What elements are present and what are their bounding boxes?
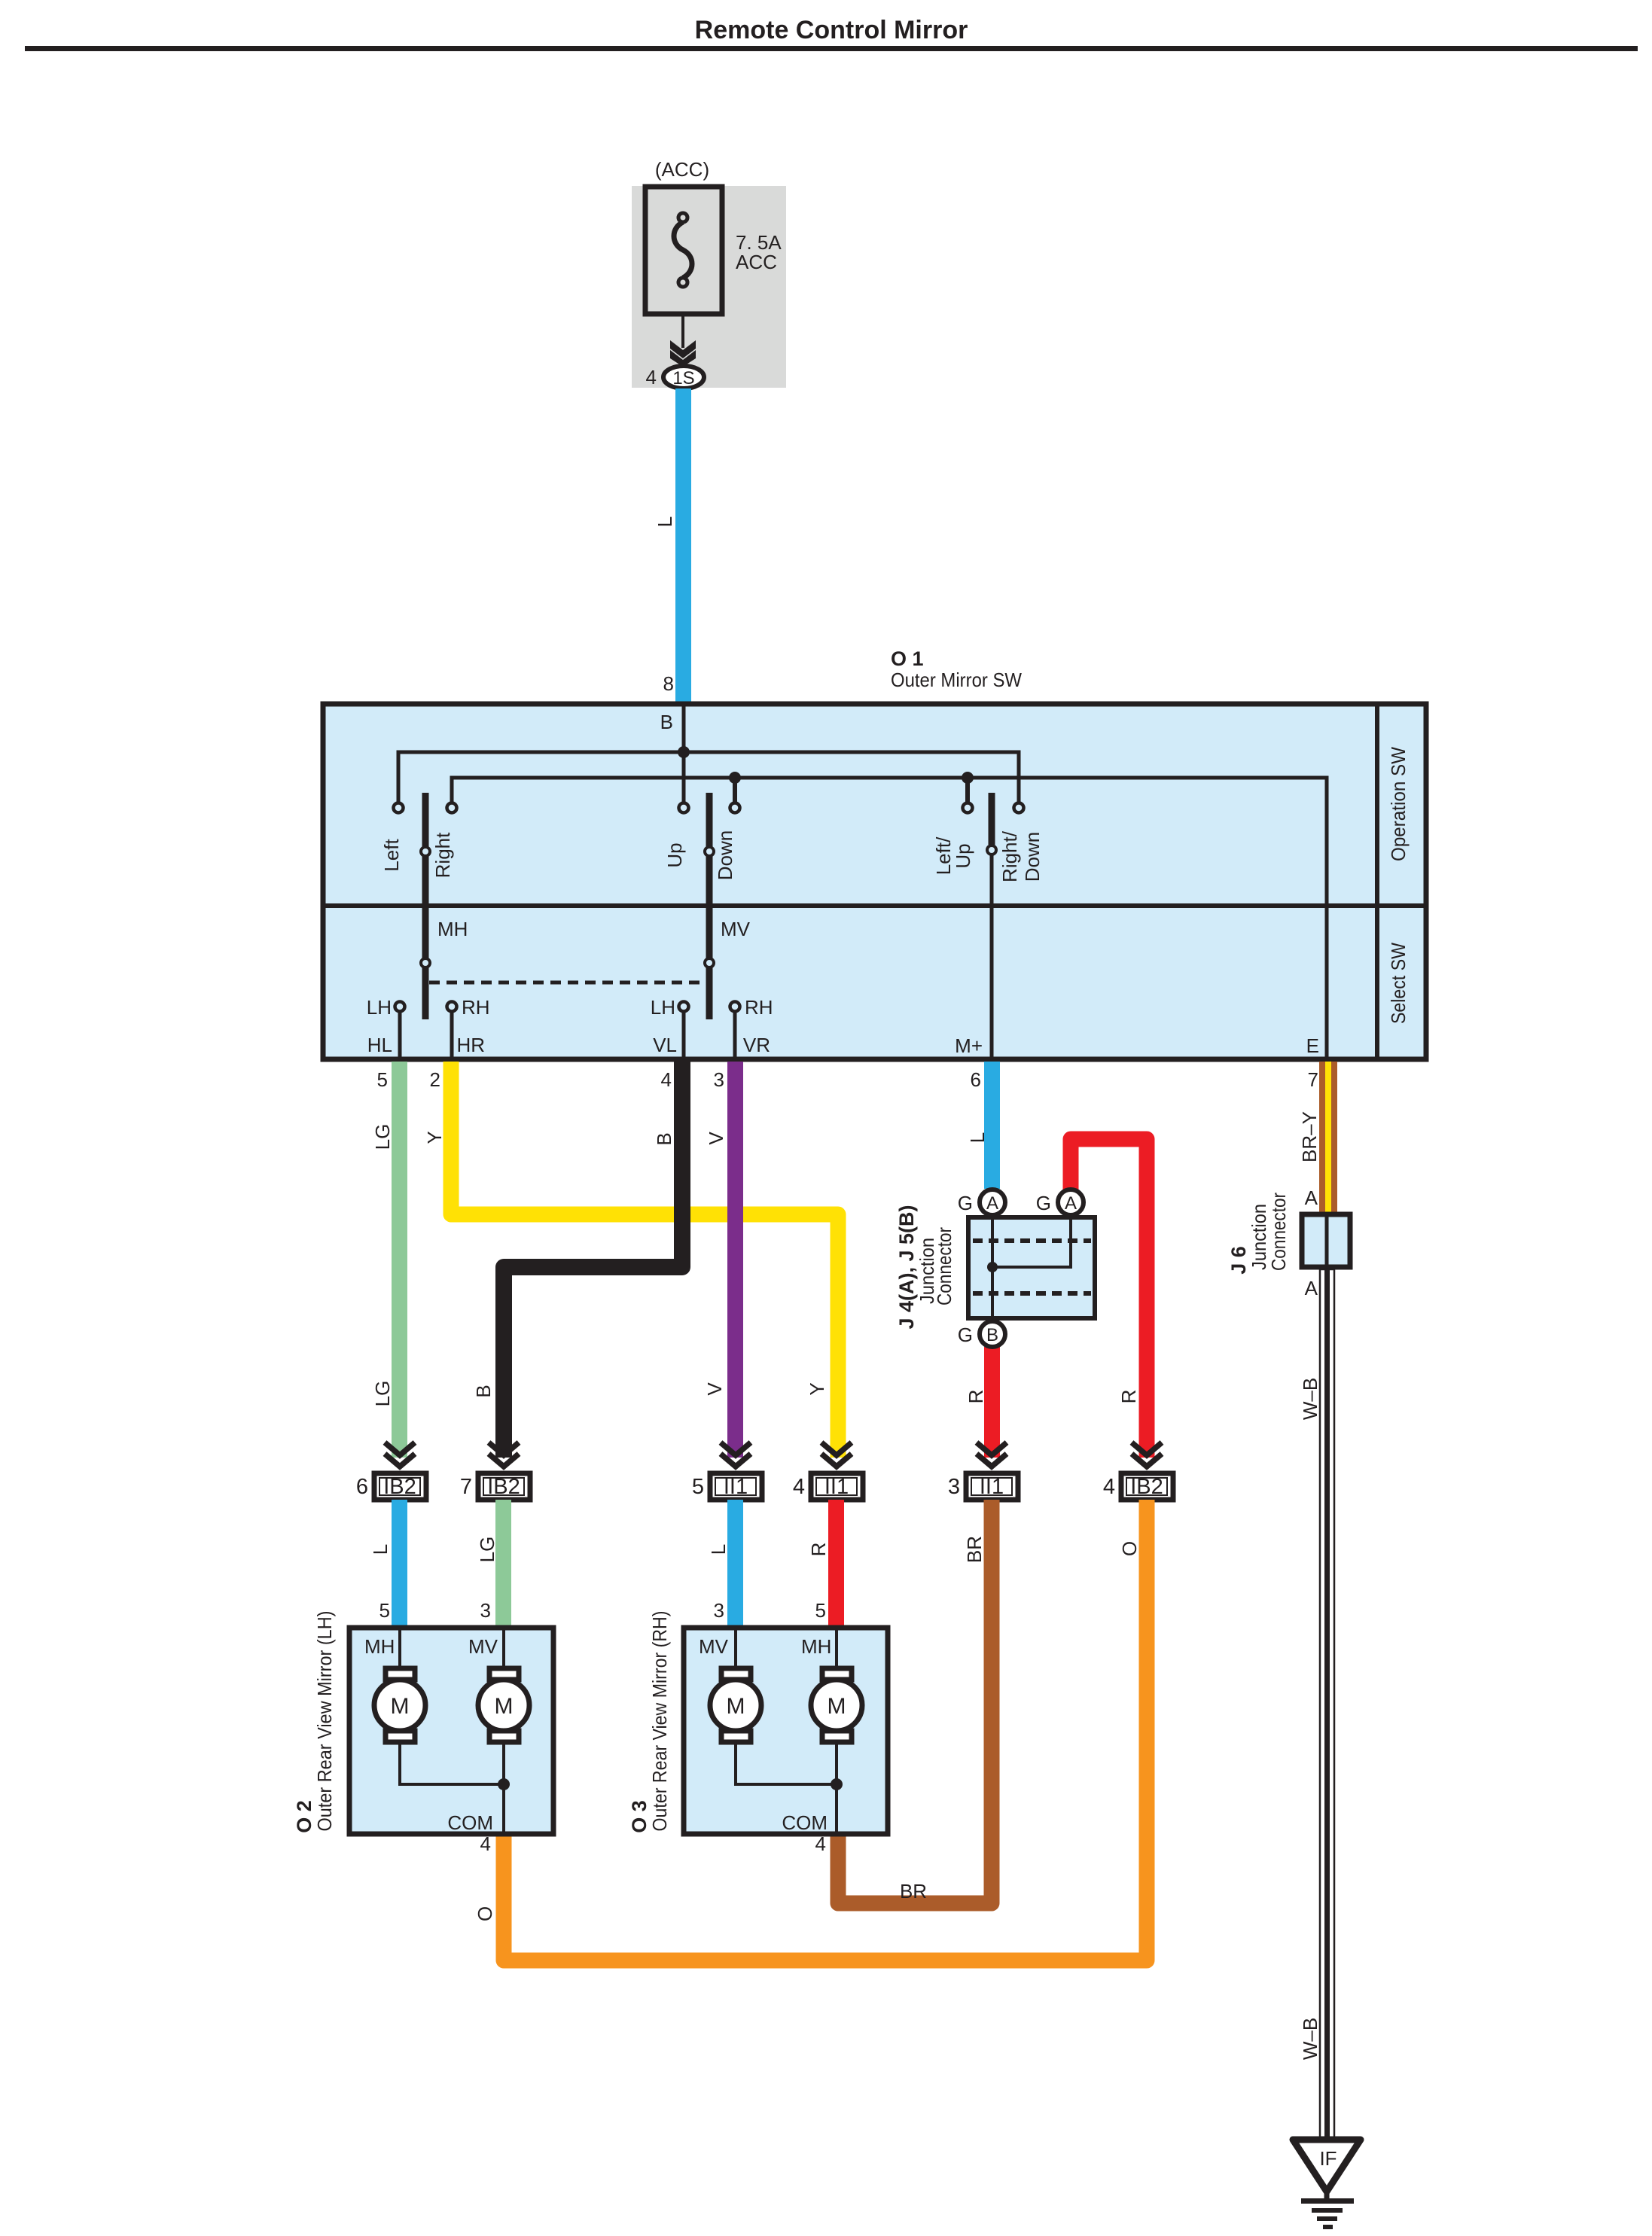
wire B from pin 4 to connector IB2	[504, 1062, 682, 1458]
wire label V upper	[705, 1132, 727, 1145]
svg-text:MH: MH	[437, 918, 468, 940]
stub Down contact	[733, 778, 737, 803]
contact RH (MV)	[730, 1002, 740, 1012]
svg-text:BR: BR	[900, 1880, 927, 1902]
contact Right	[447, 803, 457, 813]
svg-text:MV: MV	[468, 1635, 498, 1658]
svg-text:Right: Right	[431, 832, 454, 878]
svg-text:LG: LG	[371, 1124, 394, 1150]
contact LH (MH)	[395, 1002, 405, 1012]
svg-text:3: 3	[714, 1599, 724, 1622]
wire label R right	[1117, 1390, 1140, 1404]
svg-text:L: L	[966, 1132, 989, 1143]
pin B circle	[980, 1321, 1005, 1347]
svg-text:3: 3	[948, 1475, 960, 1499]
internal link A to B	[991, 1205, 994, 1331]
svg-text:O 1: O 1	[891, 647, 924, 670]
svg-text:BR–Y: BR–Y	[1298, 1111, 1321, 1162]
svg-text:O: O	[1118, 1541, 1141, 1556]
label Left/Up	[932, 836, 955, 875]
svg-text:Outer Mirror SW: Outer Mirror SW	[891, 669, 1022, 691]
wire label BR-Y	[1298, 1111, 1321, 1162]
connector chevron 5 II1	[721, 1442, 751, 1467]
wire L to LH mirror	[392, 1500, 407, 1628]
wire O from IB2 to LH COM	[504, 1500, 1147, 1960]
svg-text:J 6: J 6	[1227, 1246, 1250, 1275]
O3 junction dot	[831, 1778, 843, 1790]
J4 J5 name Junction Connector	[916, 1238, 938, 1304]
svg-text:L: L	[707, 1544, 730, 1555]
wire label L	[654, 516, 676, 527]
svg-text:M: M	[828, 1694, 846, 1719]
svg-text:MV: MV	[699, 1635, 729, 1658]
contact Right/Down	[1014, 803, 1024, 813]
section label Select SW	[1387, 943, 1410, 1024]
svg-text:M: M	[391, 1694, 410, 1719]
svg-text:7: 7	[460, 1475, 472, 1499]
svg-text:A: A	[1305, 1277, 1318, 1299]
wire VL drop	[682, 1012, 686, 1059]
svg-text:B: B	[653, 1132, 675, 1145]
O2 common wire	[400, 1741, 504, 1835]
svg-text:R: R	[965, 1390, 987, 1404]
svg-text:O 2: O 2	[293, 1800, 315, 1833]
connector box 5 II1	[710, 1473, 762, 1500]
junction dot B on bus 1	[678, 746, 690, 758]
label Down	[714, 830, 736, 880]
svg-text:4: 4	[1103, 1475, 1115, 1499]
svg-text:J 4(A), J 5(B): J 4(A), J 5(B)	[895, 1205, 918, 1329]
svg-text:MH: MH	[801, 1635, 831, 1658]
wire label LG lower	[371, 1381, 394, 1407]
fuse 7.5A ACC	[645, 187, 722, 314]
wire label Y upper	[423, 1131, 446, 1144]
connector chevron 4 IB2	[1132, 1442, 1162, 1467]
wire W-B from J6 to ground	[1320, 1269, 1334, 2140]
svg-text:A: A	[1065, 1193, 1077, 1214]
O2 name	[313, 1611, 336, 1832]
connector 1S oval	[663, 366, 704, 388]
svg-text:Operation SW: Operation SW	[1387, 747, 1410, 861]
svg-text:RH: RH	[462, 996, 490, 1019]
svg-text:5: 5	[377, 1068, 388, 1091]
wire L to RH mirror	[727, 1500, 743, 1628]
wire label Y lower	[806, 1382, 828, 1395]
pin A circle 2	[1058, 1190, 1084, 1215]
svg-text:6: 6	[356, 1475, 368, 1499]
svg-text:G: G	[1036, 1192, 1051, 1214]
switch bar MV	[706, 793, 713, 1019]
connector chevron 7 IB2	[489, 1442, 519, 1467]
svg-text:LH: LH	[651, 996, 675, 1019]
label Right/Down	[998, 830, 1021, 882]
svg-text:VR: VR	[743, 1034, 770, 1056]
wire BR from II1 to RH COM	[838, 1500, 992, 1903]
J4 J5 designator	[895, 1205, 918, 1329]
wire BR-Y from pin 7 to J6	[1319, 1062, 1337, 1212]
arrow from fuse to connector 1S	[670, 314, 696, 367]
label Up	[663, 842, 686, 867]
connector box 3 II1	[966, 1473, 1018, 1500]
connector chevron 4 II1	[821, 1442, 852, 1467]
switch bar MH	[422, 793, 429, 1019]
svg-text:W–B: W–B	[1299, 1378, 1321, 1420]
section label Operation SW	[1387, 747, 1410, 861]
svg-text:IB2: IB2	[383, 1475, 416, 1499]
svg-text:4: 4	[480, 1832, 491, 1855]
connector box 4 II1	[811, 1473, 863, 1500]
mirror O3 box	[684, 1628, 888, 1834]
ground IF triangle	[1293, 2140, 1361, 2201]
wire label B lower	[472, 1385, 495, 1397]
svg-text:B: B	[986, 1325, 998, 1345]
O2 designator	[293, 1800, 315, 1833]
svg-text:E: E	[1306, 1034, 1319, 1057]
svg-text:V: V	[703, 1382, 726, 1396]
motor M vertical RH	[710, 1668, 761, 1742]
contact LH (MV)	[679, 1002, 689, 1012]
svg-text:B: B	[472, 1385, 495, 1397]
svg-text:G: G	[958, 1192, 973, 1214]
wire label O lower	[474, 1906, 496, 1921]
svg-text:3: 3	[714, 1068, 724, 1091]
svg-text:M+: M+	[955, 1034, 983, 1057]
O3 common wire	[736, 1741, 837, 1835]
svg-text:HL: HL	[367, 1034, 392, 1056]
wire L from pin 6 to junction A	[984, 1062, 1000, 1189]
svg-text:IB2: IB2	[487, 1475, 520, 1499]
svg-text:Right/: Right/	[998, 830, 1021, 882]
svg-text:Left: Left	[380, 839, 403, 872]
contact Down	[730, 803, 740, 813]
svg-text:Outer Rear View Mirror (LH): Outer Rear View Mirror (LH)	[313, 1611, 336, 1832]
junction dot Down on bus 2	[729, 772, 741, 784]
svg-text:Outer Rear View Mirror (RH): Outer Rear View Mirror (RH)	[648, 1611, 671, 1832]
svg-text:A: A	[1305, 1187, 1318, 1209]
svg-text:HR: HR	[456, 1034, 485, 1056]
svg-text:A: A	[986, 1193, 998, 1214]
wire label L 2	[707, 1544, 730, 1555]
svg-text:2: 2	[430, 1068, 440, 1091]
J6 designator	[1227, 1246, 1250, 1275]
contact Left	[394, 803, 404, 813]
svg-text:II1: II1	[724, 1475, 748, 1499]
label Left	[380, 839, 403, 872]
svg-text:Y: Y	[806, 1382, 828, 1395]
svg-text:5: 5	[379, 1599, 390, 1622]
svg-text:II1: II1	[980, 1475, 1004, 1499]
svg-text:6: 6	[971, 1068, 981, 1091]
O2 internal wire MH	[398, 1628, 401, 1680]
svg-text:Up: Up	[952, 843, 974, 868]
contact Left/Up	[963, 803, 973, 813]
wire V from pin 3 to connector II1	[727, 1062, 743, 1458]
svg-text:Remote Control Mirror: Remote Control Mirror	[695, 16, 968, 44]
svg-text:W–B: W–B	[1299, 2018, 1321, 2060]
connector chevron 3 II1	[977, 1442, 1007, 1467]
connector box 6 IB2	[374, 1473, 426, 1500]
switch bar M+ select	[989, 793, 995, 845]
svg-text:Up: Up	[663, 842, 686, 867]
O2 internal wire MV	[502, 1628, 505, 1680]
svg-text:R: R	[807, 1543, 830, 1557]
svg-text:RH: RH	[745, 996, 773, 1019]
dashed link between select bars	[429, 981, 710, 985]
wire LG from pin 5 to connector IB2	[392, 1062, 407, 1458]
connector chevron 6 IB2	[385, 1442, 415, 1467]
wire Y from pin 2 to connector II1	[451, 1062, 838, 1458]
svg-text:B: B	[660, 711, 673, 733]
wire label B upper	[653, 1132, 675, 1145]
svg-text:L: L	[654, 516, 676, 527]
svg-text:MH: MH	[364, 1635, 395, 1658]
svg-text:4: 4	[646, 366, 657, 388]
svg-text:(ACC): (ACC)	[655, 158, 709, 181]
stub Left/Up contact	[965, 778, 970, 803]
svg-text:MV: MV	[721, 918, 751, 940]
wire label L	[369, 1544, 392, 1555]
svg-text:COM: COM	[447, 1811, 493, 1834]
fuse block shading	[632, 186, 786, 388]
connector box 4 IB2	[1121, 1473, 1173, 1500]
svg-text:O 3: O 3	[628, 1800, 651, 1833]
junction dot J4	[987, 1262, 998, 1272]
svg-text:V: V	[705, 1132, 727, 1145]
svg-text:7: 7	[1308, 1068, 1318, 1091]
O2 junction dot	[498, 1778, 510, 1790]
motor M horizontal RH	[811, 1668, 862, 1742]
mirror O2 box	[349, 1628, 553, 1834]
wire label LG upper	[371, 1124, 394, 1150]
internal link A2	[992, 1205, 1071, 1267]
svg-text:Connector: Connector	[933, 1227, 956, 1305]
wire L from 1S to O1 pin 8	[675, 388, 691, 704]
svg-text:Down: Down	[714, 830, 736, 880]
bus wire 1 (B to Left and Right/Down)	[398, 752, 1019, 803]
wire label R left	[965, 1390, 987, 1404]
svg-text:Select SW: Select SW	[1387, 943, 1410, 1024]
svg-text:G: G	[958, 1324, 973, 1346]
O3 internal wire MH	[835, 1628, 838, 1680]
switch assembly O1 box	[323, 704, 1426, 1059]
O3 internal wire MV	[734, 1628, 737, 1680]
svg-text:IF: IF	[1319, 2147, 1337, 2170]
svg-text:5: 5	[692, 1475, 704, 1499]
ground bars	[1301, 2198, 1354, 2229]
svg-text:1S: 1S	[672, 368, 694, 388]
connector box 7 IB2	[478, 1473, 530, 1500]
svg-text:M: M	[727, 1694, 745, 1719]
wire LG to LH mirror	[495, 1500, 511, 1628]
svg-text:8: 8	[663, 672, 674, 695]
svg-text:LG: LG	[371, 1381, 394, 1407]
svg-text:VL: VL	[653, 1034, 677, 1056]
bus wire 2 (Right, Down, Left/Up to E)	[452, 778, 1327, 1059]
pin A circle 1	[980, 1190, 1005, 1215]
svg-text:L: L	[369, 1544, 392, 1555]
svg-text:LG: LG	[476, 1537, 498, 1563]
svg-text:R: R	[1117, 1390, 1140, 1404]
wire R to RH mirror	[828, 1500, 844, 1628]
svg-text:4: 4	[793, 1475, 805, 1499]
wire label R 2	[807, 1543, 830, 1557]
label Right	[431, 832, 454, 878]
wire label O upper	[1118, 1541, 1141, 1556]
junction connector J6 box	[1302, 1212, 1350, 1269]
wire VR drop	[733, 1012, 737, 1059]
wire label BR vertical	[963, 1536, 986, 1563]
svg-text:Y: Y	[423, 1131, 446, 1144]
wire R from A2 loop to connector IB2	[1071, 1139, 1147, 1458]
wire label L (M+)	[966, 1132, 989, 1143]
title rule	[25, 46, 1638, 51]
wire label W-B lower	[1299, 2018, 1321, 2060]
J6 name Junction Connector	[1248, 1204, 1270, 1270]
svg-text:BR: BR	[963, 1536, 986, 1563]
svg-text:COM: COM	[782, 1811, 828, 1834]
O3 name	[648, 1611, 671, 1832]
wire label W-B upper	[1299, 1378, 1321, 1420]
svg-text:3: 3	[480, 1599, 491, 1622]
motor M vertical LH	[478, 1668, 529, 1742]
O3 designator	[628, 1800, 651, 1833]
svg-text:4: 4	[661, 1068, 672, 1091]
svg-text:Connector: Connector	[1267, 1193, 1290, 1271]
svg-text:Down: Down	[1021, 832, 1044, 882]
junction dot Left/Up on bus 2	[962, 772, 974, 784]
wire R from B to connector II1	[984, 1347, 1000, 1458]
contact RH (MH)	[447, 1002, 457, 1012]
svg-text:LH: LH	[367, 996, 392, 1019]
motor M horizontal LH	[374, 1668, 425, 1742]
svg-text:II1: II1	[824, 1475, 849, 1499]
junction connector J4/J5 box	[968, 1217, 1095, 1318]
svg-text:5: 5	[815, 1599, 826, 1622]
wire B vertical inside O1	[682, 704, 686, 803]
svg-text:O: O	[474, 1906, 496, 1921]
wire HL drop	[398, 1012, 402, 1059]
svg-text:4: 4	[815, 1832, 826, 1855]
svg-text:IB2: IB2	[1130, 1475, 1163, 1499]
wire label LG	[476, 1537, 498, 1563]
contact Up	[679, 803, 689, 813]
wire HR drop	[450, 1012, 454, 1059]
svg-text:ACC: ACC	[736, 251, 777, 273]
svg-text:M: M	[495, 1694, 514, 1719]
wire label V lower	[703, 1382, 726, 1396]
